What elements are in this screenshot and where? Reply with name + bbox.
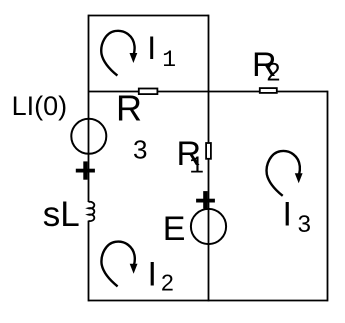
svg-text:2: 2 [267,59,281,87]
resistor R (body) [139,89,158,95]
resistor R1 (body) [206,143,211,159]
polarity + of LI(0) [76,161,95,179]
svg-text:1: 1 [162,47,176,73]
svg-text:R: R [116,88,142,129]
svg-text:3: 3 [298,211,311,238]
voltage source E (circle) [191,209,226,244]
mesh current loop I3 (arrow) [267,151,303,196]
svg-text:sL: sL [43,195,80,234]
wire top (mesh 1 top side) [89,15,209,17]
svg-text:I: I [283,195,292,233]
svg-text:I: I [147,30,156,66]
wire left vertical lower (below inductor) [88,221,90,302]
svg-text:1: 1 [189,153,204,180]
svg-text:LI(0): LI(0) [12,91,68,121]
mesh current loop I1 (arrow) [101,31,137,76]
inductor sL (coil) [89,202,95,221]
svg-text:2: 2 [161,269,174,295]
svg-text:3: 3 [133,134,147,164]
current source LI(0) (circle) [71,119,106,154]
polarity + of E [196,191,215,208]
resistor R2 (body) [260,88,277,93]
wire middle horizontal (R / R2 branch) [89,91,328,93]
wire left vertical upper (through LI(0) source) [88,15,90,202]
svg-text:E: E [163,210,186,248]
svg-text:I: I [148,255,157,293]
mesh current loop I2 (arrow) [101,242,137,287]
wire right vertical [327,91,329,302]
wire middle vertical (R1 / E branch) [208,15,210,302]
wire bottom [89,300,328,302]
